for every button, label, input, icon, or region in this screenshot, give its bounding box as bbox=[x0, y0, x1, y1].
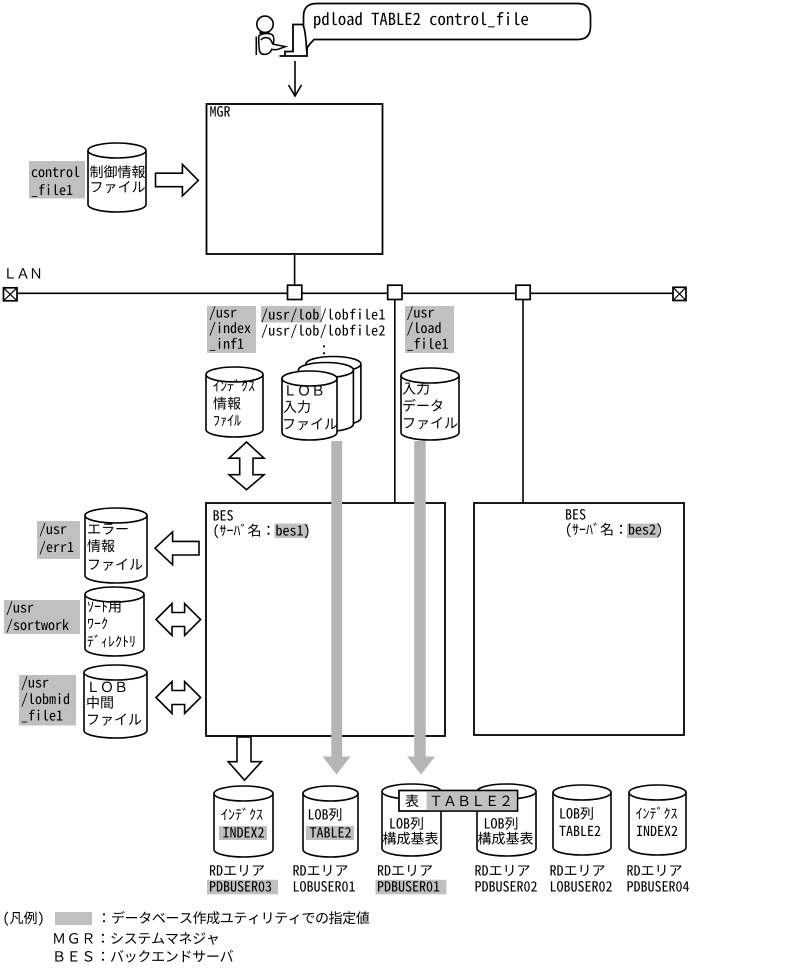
LAN junction node 2 bbox=[388, 285, 402, 299]
connector LAN node3 to BES2 bbox=[522, 300, 524, 504]
RD area caption 6 bbox=[627, 865, 681, 876]
cylinder control info file bbox=[88, 143, 146, 212]
lob table2 second text line1 bbox=[560, 807, 592, 820]
speech bubble bbox=[304, 4, 591, 49]
operator back bbox=[255, 37, 257, 56]
LOB input file text line2 bbox=[284, 400, 310, 413]
flow bar LOB input shaft bbox=[331, 441, 342, 757]
console monitor bbox=[285, 25, 306, 57]
RD area caption 3 bbox=[378, 865, 432, 876]
RD area name PDBUSER04 bbox=[628, 881, 689, 892]
error info file text line2 bbox=[87, 539, 114, 552]
console desk bbox=[280, 47, 308, 56]
legend BES colon bbox=[102, 952, 104, 961]
LOB intermediate text line1 bbox=[90, 682, 125, 693]
legend MGR term bbox=[54, 933, 93, 944]
cylinder LOB input file front bbox=[282, 371, 337, 440]
usr index_inf1 line3 bbox=[210, 338, 244, 351]
LAN right terminator X bbox=[673, 287, 686, 300]
BES1 server name bbox=[214, 524, 308, 539]
control info file text line2 bbox=[92, 181, 145, 193]
RD area name LOBUSER02 bbox=[551, 881, 612, 892]
RD area name LOBUSER01 bbox=[294, 881, 355, 892]
flow bar LOB input head bbox=[323, 757, 351, 775]
cylinder LOB intermediate file bbox=[84, 665, 147, 738]
LAN left terminator X bbox=[4, 288, 18, 301]
LOB intermediate text line3 bbox=[88, 714, 141, 726]
double arrow BES1 lobmid bbox=[156, 682, 201, 714]
flow bar input data head bbox=[407, 757, 435, 775]
operator arm fold bbox=[261, 38, 273, 45]
usr sortwork line2 bbox=[7, 619, 69, 633]
usr err1 line1 bbox=[40, 523, 67, 537]
BES2 server name bbox=[567, 523, 661, 538]
error info file text line1 bbox=[88, 524, 127, 535]
LOB intermediate text line2 bbox=[87, 696, 112, 709]
control info file text line1 bbox=[90, 165, 145, 178]
usr sortwork highlight bbox=[4, 600, 80, 634]
cylinder RD index INDEX2 second bbox=[629, 785, 686, 855]
control_file1 highlight bbox=[29, 161, 85, 199]
legend MGR description bbox=[111, 932, 218, 944]
LAN left terminator box bbox=[4, 288, 18, 301]
LOB input file text line1 bbox=[287, 385, 322, 396]
double arrow BES1 sortwork bbox=[156, 604, 201, 636]
MGR box bbox=[207, 104, 383, 254]
RD area caption 1 bbox=[210, 865, 264, 876]
operator neck bbox=[260, 32, 270, 34]
usr index_inf1 line2 bbox=[210, 322, 251, 336]
usr load_file1 line2 bbox=[407, 322, 440, 336]
lob table2 first text line1 bbox=[309, 808, 341, 821]
left arrow BES1 to error file bbox=[155, 532, 199, 565]
operator torso and arm bbox=[259, 33, 286, 54]
RD area name PDBUSER01 bbox=[378, 881, 439, 892]
block arrow BES1 to INDEX2 bbox=[228, 737, 261, 780]
usr err1 highlight bbox=[37, 521, 80, 559]
cylinder RD LOB TABLE2 second bbox=[553, 785, 611, 855]
index2 second text line2 bbox=[637, 826, 677, 836]
RD area caption 2 bbox=[293, 865, 347, 876]
cylinder error info file bbox=[85, 508, 147, 583]
index info file text line2 bbox=[213, 397, 240, 410]
BES1 box bbox=[206, 503, 445, 736]
RD area caption 4 bbox=[475, 865, 529, 876]
flow bar input data shaft bbox=[414, 441, 426, 757]
PDBUSER01 highlight bbox=[376, 880, 447, 895]
speech bubble text pdload TABLE2 control_file bbox=[314, 12, 528, 28]
lobfile1 path bbox=[262, 308, 385, 322]
cylinder LOB base table left bbox=[382, 784, 441, 856]
cylinder RD index INDEX2 bbox=[214, 786, 273, 857]
usr lobmid line2 bbox=[22, 693, 69, 707]
sort work text line1 bbox=[88, 601, 121, 613]
usr index_inf1 line1 bbox=[210, 306, 237, 320]
LAN junction node 1 bbox=[288, 285, 302, 299]
double arrow index file to BES1 bbox=[229, 442, 264, 490]
LAN label bbox=[7, 268, 40, 278]
operator figure head bbox=[257, 16, 273, 32]
cylinder LOB input file middle bbox=[298, 363, 353, 432]
cylinder RD LOB TABLE2 first bbox=[303, 786, 358, 857]
usr load_file1 highlight bbox=[405, 306, 454, 353]
cylinder sort work directory bbox=[85, 587, 144, 656]
usr err1 line2 bbox=[40, 541, 74, 555]
legend heading bbox=[4, 911, 42, 925]
input data file text line2 bbox=[403, 399, 442, 412]
table label 表 bbox=[405, 794, 418, 807]
usr lobmid line3 bbox=[22, 710, 63, 723]
RD area caption 5 bbox=[550, 865, 604, 876]
cylinder LOB input file back bbox=[306, 357, 361, 426]
lobfile2 path bbox=[262, 324, 385, 338]
table label TABLE2 bbox=[432, 796, 510, 806]
legend BES description bbox=[111, 950, 233, 963]
usr lob highlight bbox=[261, 306, 321, 323]
usr load_file1 line1 bbox=[407, 306, 434, 320]
arrow operator to MGR head bbox=[289, 85, 302, 96]
TABLE2 highlight bbox=[306, 826, 354, 840]
sort work text line3 bbox=[88, 635, 135, 648]
arrow operator to MGR shaft bbox=[294, 61, 296, 95]
cylinder index info file bbox=[206, 367, 263, 437]
RD area name PDBUSER02 bbox=[476, 881, 537, 892]
index info file text line1 bbox=[213, 379, 254, 391]
input data file text line1 bbox=[403, 382, 429, 395]
block arrow control file to MGR bbox=[156, 164, 199, 196]
usr load_file1 line3 bbox=[407, 338, 448, 351]
legend BES term bbox=[55, 951, 92, 962]
base table right text line1 bbox=[485, 817, 517, 830]
sort work text line2 bbox=[88, 617, 107, 629]
usr lobmid line1 bbox=[22, 676, 49, 690]
BES2 label bbox=[566, 509, 585, 520]
PDBUSER03 highlight bbox=[207, 880, 278, 895]
control_file1 text line2 bbox=[32, 184, 73, 197]
lobfile ellipsis bbox=[323, 345, 325, 354]
base table left text line2 bbox=[383, 832, 438, 845]
index2 second text line1 bbox=[636, 807, 677, 819]
lob table2 second text line2 bbox=[559, 826, 600, 836]
RD area name PDBUSER03 bbox=[210, 881, 271, 892]
base table left text line1 bbox=[390, 817, 422, 830]
legend MGR colon bbox=[102, 934, 104, 943]
LAN junction node 3 bbox=[516, 285, 530, 299]
index2 cyl text line1 bbox=[221, 808, 262, 820]
connector LAN node2 to BES1 bbox=[394, 300, 396, 504]
LAN right terminator box bbox=[673, 287, 686, 300]
bes2 highlight bbox=[627, 524, 659, 539]
base table right text line2 bbox=[478, 832, 533, 845]
MGR box label bbox=[210, 106, 230, 117]
usr index_inf1 highlight bbox=[207, 306, 256, 353]
index info file text line3 bbox=[214, 415, 241, 426]
connector MGR to LAN bbox=[294, 254, 296, 286]
input data file text line3 bbox=[404, 417, 457, 429]
index2 cyl text line2 bbox=[223, 827, 263, 837]
cylinder LOB base table right bbox=[477, 784, 536, 856]
legend line1 description bbox=[112, 911, 369, 924]
LOB input file text line3 bbox=[284, 418, 337, 430]
usr lobmid_file1 highlight bbox=[19, 675, 76, 726]
table TABLE2 label box bbox=[399, 791, 518, 812]
error info file text line3 bbox=[89, 559, 142, 571]
INDEX2 highlight bbox=[219, 826, 267, 840]
lob table2 first text line2 bbox=[310, 827, 351, 837]
LAN bus line bbox=[17, 292, 673, 294]
bes1 highlight bbox=[275, 524, 309, 539]
BES2 box bbox=[474, 503, 684, 735]
legend gray swatch bbox=[55, 912, 92, 925]
legend line1 text bbox=[103, 913, 105, 922]
table TABLE2 gray section bbox=[427, 791, 516, 810]
usr sortwork line1 bbox=[7, 601, 34, 615]
cylinder input data file bbox=[401, 368, 459, 440]
control_file1 text line1 bbox=[32, 166, 79, 177]
BES1 label bbox=[214, 510, 233, 521]
